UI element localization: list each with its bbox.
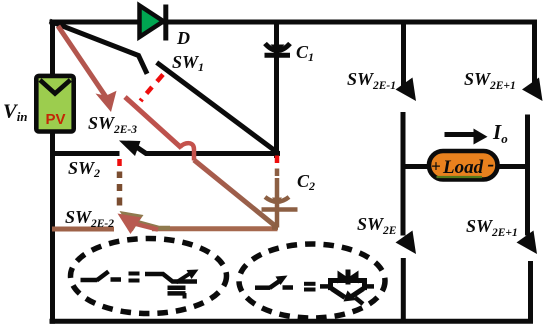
svg-text:SW2E+1: SW2E+1 xyxy=(464,69,516,92)
svg-text:+: + xyxy=(431,157,441,176)
svg-text:SW2E-3: SW2E-3 xyxy=(88,113,137,136)
svg-text:SW2: SW2 xyxy=(68,158,100,180)
svg-text:D: D xyxy=(176,28,190,48)
svg-text:SW2E-1: SW2E-1 xyxy=(347,69,396,92)
svg-text:PV: PV xyxy=(46,111,66,128)
svg-text:-: - xyxy=(488,154,495,176)
svg-text:SW2E-2: SW2E-2 xyxy=(65,207,114,230)
svg-text:SW2E+1: SW2E+1 xyxy=(466,216,518,239)
svg-text:Vin: Vin xyxy=(3,101,28,125)
svg-text:SW1: SW1 xyxy=(172,52,204,74)
svg-text:Load: Load xyxy=(442,157,484,178)
svg-text:C1: C1 xyxy=(296,42,314,64)
svg-text:SW2E: SW2E xyxy=(357,214,397,237)
svg-text:C2: C2 xyxy=(297,171,315,193)
svg-text:Io: Io xyxy=(492,120,508,146)
